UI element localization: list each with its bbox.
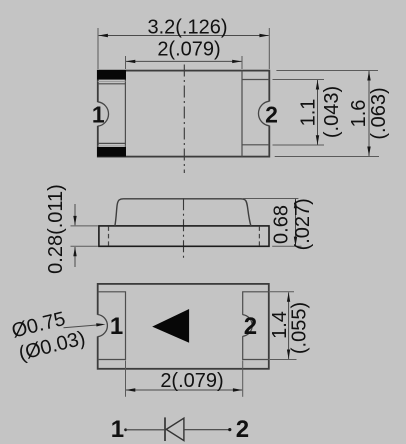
svg-text:(.055): (.055) [289,302,311,354]
svg-text:3.2(.126): 3.2(.126) [147,16,227,38]
svg-text:1.1: 1.1 [297,99,319,127]
svg-text:1: 1 [110,313,123,340]
svg-text:(.027): (.027) [292,198,314,250]
svg-text:(.063): (.063) [368,87,390,139]
svg-text:2(.079): 2(.079) [160,370,223,392]
svg-text:0.68: 0.68 [270,205,292,244]
svg-text:2: 2 [236,416,249,443]
svg-text:1: 1 [92,101,105,127]
svg-text:2: 2 [265,101,278,127]
svg-text:1: 1 [111,416,124,443]
svg-text:1.6: 1.6 [348,100,370,128]
svg-text:2: 2 [244,313,257,340]
svg-text:0.28(.011): 0.28(.011) [45,184,67,274]
svg-text:2(.079): 2(.079) [157,38,220,60]
svg-text:(.043): (.043) [321,86,343,138]
